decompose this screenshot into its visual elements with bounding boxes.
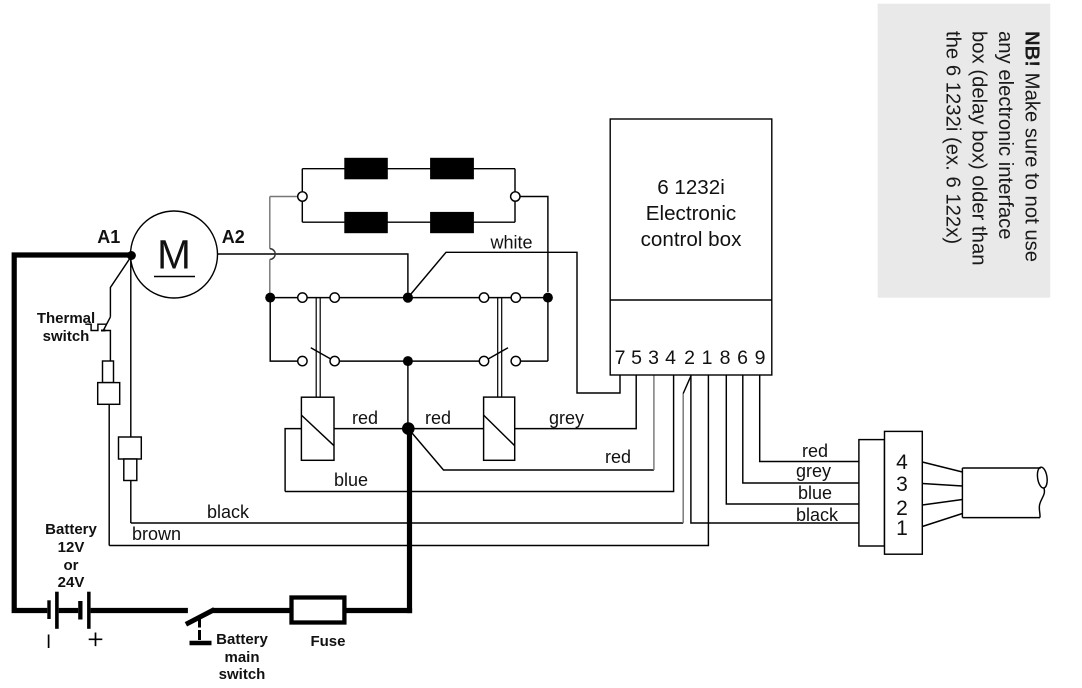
coil row wire K1 right to junction	[334, 428, 408, 430]
switch T handle	[190, 641, 212, 646]
svg-text:4: 4	[896, 451, 908, 474]
thick wire battery to switch	[91, 608, 188, 613]
svg-text:2: 2	[684, 347, 695, 369]
bridge right stub	[520, 197, 548, 293]
battery plus label	[89, 633, 103, 647]
svg-text:24V: 24V	[58, 574, 85, 591]
bridge left vertical	[301, 169, 303, 223]
fuse F1	[292, 598, 345, 623]
resistor R1	[344, 158, 388, 180]
bridge left terminal circle	[298, 192, 307, 201]
wire pin8 blue to connector	[726, 375, 859, 504]
NB note box	[878, 4, 1050, 298]
battery label	[45, 521, 97, 591]
battery minus label	[48, 635, 50, 649]
svg-text:7: 7	[615, 347, 626, 369]
thick wire switch to fuse	[212, 608, 290, 613]
svg-text:red: red	[352, 408, 378, 428]
node dots top row	[265, 293, 275, 303]
connector pair on thermal line	[103, 361, 114, 383]
svg-text:or: or	[64, 557, 79, 574]
svg-text:switch: switch	[43, 328, 90, 345]
thermal switch label	[37, 310, 95, 345]
wire from A1 to thermal switch	[110, 256, 131, 317]
connector socket small	[859, 440, 885, 546]
svg-text:Battery: Battery	[216, 631, 268, 648]
contact row top	[270, 297, 548, 299]
fan-out wires to cable	[922, 462, 962, 527]
lower contact row segments	[339, 360, 480, 362]
wire pin6 grey to connector	[743, 375, 859, 483]
contact terminal circles top row	[298, 293, 307, 302]
svg-text:3: 3	[648, 347, 659, 369]
svg-text:Thermal: Thermal	[37, 310, 95, 327]
black wire pin2 to connector	[691, 375, 859, 523]
right drop to lower row	[547, 298, 549, 362]
svg-text:Electronic: Electronic	[646, 202, 736, 225]
coil row wire K1 left to blue	[285, 429, 301, 492]
svg-text:8: 8	[720, 347, 731, 369]
svg-text:9: 9	[755, 347, 766, 369]
svg-text:6: 6	[737, 347, 748, 369]
thick battery negative wire (left)	[14, 255, 131, 611]
node A1	[127, 251, 136, 260]
svg-text:5: 5	[631, 347, 642, 369]
contact blade lower-left	[311, 348, 331, 360]
black wire pin2 jog	[682, 394, 684, 524]
battery main switch blade	[186, 610, 215, 625]
svg-text:1: 1	[896, 517, 908, 540]
wire A1 vertical down	[130, 257, 132, 437]
actuator link right (double line)	[498, 298, 502, 398]
svg-text:box (delay box) older than: box (delay box) older than	[968, 31, 990, 266]
svg-text:control box: control box	[641, 228, 742, 251]
contact terminal circles bottom row	[298, 356, 307, 365]
svg-text:grey: grey	[549, 408, 584, 428]
thermal switch bimetal element	[85, 324, 106, 330]
relay coil K1	[301, 397, 334, 460]
thermal switch blade	[103, 317, 110, 331]
svg-text:A2: A2	[222, 227, 245, 247]
grey drop wire with hop over A2	[269, 197, 271, 249]
black wire left	[131, 522, 683, 524]
bridge left stub	[270, 196, 298, 198]
thick wire fuse to riser	[346, 608, 412, 613]
resistor R4	[430, 212, 474, 233]
svg-text:red: red	[802, 441, 828, 461]
svg-text:Battery: Battery	[45, 521, 97, 538]
relay coil K2	[484, 397, 515, 460]
svg-text:1: 1	[702, 347, 713, 369]
resistor bridge bottom wire	[302, 221, 515, 223]
svg-text:A1: A1	[97, 227, 120, 247]
svg-text:red: red	[425, 408, 451, 428]
svg-text:blue: blue	[334, 470, 368, 490]
blue wire	[285, 375, 673, 492]
actuator link left (double line)	[316, 298, 320, 398]
connector body 4321	[885, 431, 923, 554]
svg-text:4: 4	[665, 347, 676, 369]
switch actuator dashes	[198, 617, 201, 640]
resistor R3	[344, 212, 388, 233]
white wire	[408, 252, 620, 393]
svg-text:black: black	[796, 505, 839, 525]
svg-text:3: 3	[896, 473, 908, 496]
junction node	[402, 422, 415, 435]
coil row wire junction to K2	[408, 428, 483, 430]
battery main switch label	[216, 631, 268, 683]
thermal switch lower wire	[104, 331, 111, 362]
grey wire K2 to pin5	[515, 375, 637, 429]
bridge right vertical	[514, 169, 516, 223]
wire bottom row to junction	[407, 361, 409, 429]
svg-text:Fuse: Fuse	[310, 633, 345, 650]
svg-text:NB! Make sure to not use: NB! Make sure to not use	[1021, 31, 1043, 262]
svg-text:switch: switch	[219, 666, 266, 683]
svg-text:main: main	[224, 649, 259, 666]
svg-text:white: white	[490, 233, 533, 253]
svg-text:grey: grey	[796, 461, 831, 481]
wire A2 to center node	[218, 254, 408, 293]
resistor R2	[430, 158, 474, 180]
bridge right terminal circle	[511, 192, 520, 201]
svg-text:12V: 12V	[58, 539, 85, 556]
svg-text:brown: brown	[132, 524, 181, 544]
battery cells	[47, 592, 90, 629]
left drop to lower row	[270, 298, 298, 362]
node dot bottom row center	[403, 356, 413, 366]
svg-text:red: red	[605, 447, 631, 467]
contact blade lower-right	[488, 348, 508, 360]
svg-text:any electronic interface: any electronic interface	[994, 31, 1016, 240]
electronic control box	[610, 119, 772, 375]
svg-text:M: M	[157, 232, 191, 278]
svg-text:6 1232i: 6 1232i	[657, 176, 725, 199]
pin numbers	[615, 347, 766, 369]
resistor bridge top wire	[302, 168, 515, 170]
wire thermal connector to brown	[108, 404, 110, 545]
svg-text:black: black	[207, 502, 250, 522]
wire pin9 red to connector	[760, 375, 859, 462]
cable end	[962, 468, 1040, 518]
svg-text:blue: blue	[798, 483, 832, 503]
red wire junction to pin3	[408, 429, 654, 470]
thick riser wire to junction	[407, 429, 412, 613]
svg-text:the 6 1232i (ex. 6 122x): the 6 1232i (ex. 6 122x)	[941, 31, 963, 244]
connector pair on A1 line	[119, 437, 142, 459]
brown wire	[109, 375, 708, 546]
motor M	[131, 211, 218, 298]
